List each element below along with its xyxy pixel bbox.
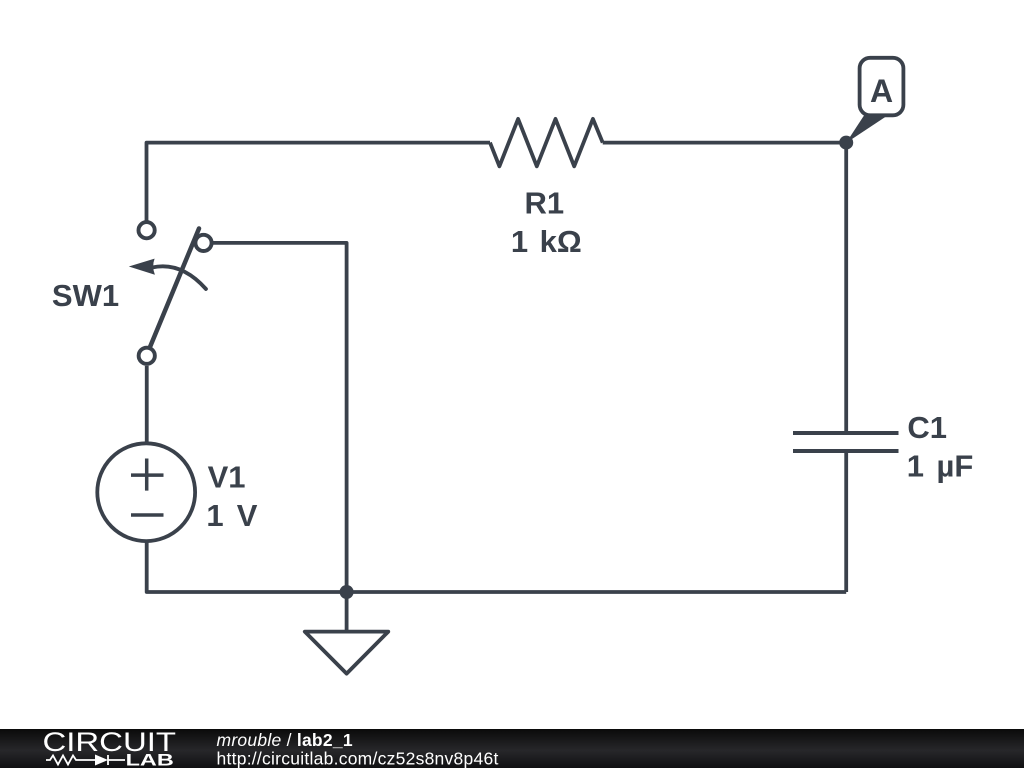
wire resistor to node A [603,141,847,145]
svg-text:R1: R1 [524,186,564,221]
svg-text:1 µF: 1 µF [907,449,974,484]
switch SW1 blade [150,229,199,348]
ground stub [345,592,349,632]
svg-text:http://circuitlab.com/cz52s8nv: http://circuitlab.com/cz52s8nv8p46t [217,749,499,768]
wire node A down to capacitor [844,143,848,433]
svg-text:mrouble / lab2_1: mrouble / lab2_1 [217,730,353,750]
V1 minus sign [131,513,164,517]
node A flag box [860,58,904,116]
switch SW1 actuation arc [152,266,206,289]
ground junction dot [340,585,354,599]
V1 plus sign [131,459,164,491]
svg-text:SW1: SW1 [52,278,119,313]
svg-text:C1: C1 [907,410,947,445]
CircuitLab logo mini schematic [46,755,125,765]
voltage source V1 circle [97,443,195,541]
switch SW1 bottom terminal circle [139,348,155,364]
node A leader wedge [846,116,886,144]
CircuitLab logo mini schematic diode [95,755,108,766]
wire capacitor to bottom rail [844,451,848,592]
capacitor C1 top plate [793,431,899,435]
switch SW1 top terminal circle [139,222,155,238]
wire switch to V1 [145,366,149,445]
wire switch pivot to right branch [212,243,347,592]
svg-text:LAB: LAB [126,751,174,768]
switch SW1 pivot circle [195,235,211,251]
svg-text:A: A [870,73,893,109]
svg-text:V1: V1 [208,460,246,495]
ground symbol [305,632,389,674]
node A junction dot [839,136,853,150]
wire top-left horizontal segment [147,143,491,222]
svg-text:1 V: 1 V [206,498,257,533]
wire bottom rail [147,542,847,593]
svg-text:1 kΩ: 1 kΩ [511,224,582,259]
resistor R1 [490,119,603,166]
switch SW1 arrow head [129,259,155,275]
capacitor C1 bottom plate [793,449,899,453]
